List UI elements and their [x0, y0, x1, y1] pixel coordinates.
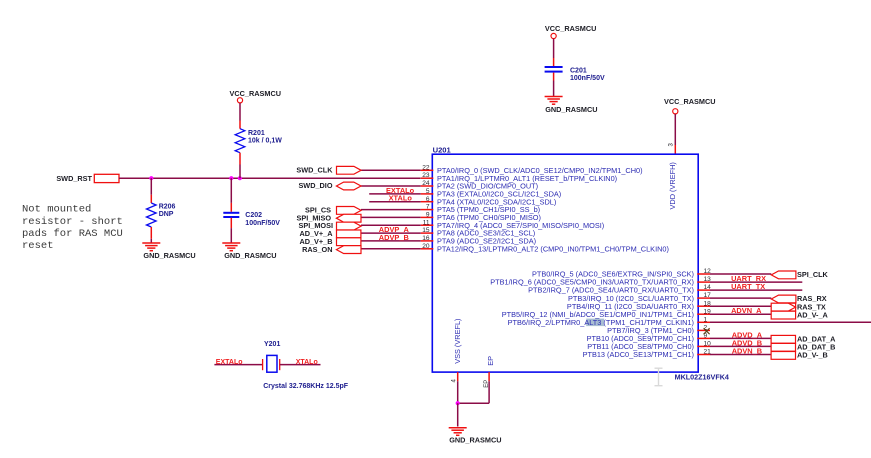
net label UART_RX [731, 274, 766, 283]
pin 4 VSS stub [452, 372, 458, 382]
net label ADVP_A [379, 225, 410, 234]
port flag AD_V+_A [299, 229, 360, 238]
port flag AD_V+_B [299, 237, 360, 246]
port flag AD_DAT_A [771, 335, 836, 344]
svg-text:C202: C202 [245, 212, 262, 219]
pin 1 right [697, 316, 710, 323]
wire pin15 to AD_V+_A flag [361, 232, 421, 234]
port flag AD_V-_A [771, 310, 828, 319]
svg-text:PTA12/IRQ_13/LPTMR0_ALT2 (CMP0: PTA12/IRQ_13/LPTMR0_ALT2 (CMP0_IN0/TPM1_… [437, 244, 669, 253]
pin 7 PTA5 left [421, 204, 540, 215]
net label EXTALo (pin5) [386, 186, 415, 195]
pin 16 PTA9 left [421, 235, 536, 246]
svg-text:15: 15 [422, 227, 430, 234]
svg-text:ADVN_A: ADVN_A [731, 306, 762, 315]
pin 1 PTB6 name with ALT3 highlight [508, 318, 694, 327]
svg-text:9: 9 [426, 212, 430, 219]
pin 12 right [532, 268, 711, 279]
net label ADVP_B [379, 233, 409, 242]
net label ADVN_B [732, 347, 762, 356]
svg-text:100nF/50V: 100nF/50V [570, 75, 605, 82]
svg-text:VCC_RASMCU: VCC_RASMCU [664, 97, 716, 106]
port flag SPI_MOSI [299, 221, 362, 230]
svg-text:Not mounted: Not mounted [22, 204, 91, 216]
wire to bottom ground [457, 403, 459, 426]
svg-text:SPI_CLK: SPI_CLK [797, 270, 829, 279]
port flag SPI_MISO [297, 213, 361, 222]
pin 6 PTA4 left [421, 196, 557, 207]
wire VSS down [457, 381, 459, 403]
wire pin17 to RAS_RX flag [710, 297, 771, 299]
wire pin19 to AD_V-_A flag [710, 313, 771, 315]
power VCC_RASMCU above pin 3 [664, 97, 716, 114]
svg-text:GND_RASMCU: GND_RASMCU [224, 251, 276, 260]
junction VSS/EP [456, 401, 460, 405]
svg-text:PTB6/IRQ_2/LPTMR0_ALT3 (TPM1_C: PTB6/IRQ_2/LPTMR0_ALT3 (TPM1_CH1/TPM_CLK… [508, 318, 694, 327]
text cursor artifact [655, 368, 663, 386]
svg-text:VCC_RASMCU: VCC_RASMCU [230, 89, 282, 98]
wire R201 to net [239, 165, 241, 179]
svg-text:23: 23 [422, 172, 430, 179]
pin EP stub [484, 372, 490, 388]
svg-text:DNP: DNP [159, 211, 174, 218]
resistor R201 10k/0,1W [235, 121, 282, 165]
svg-text:20: 20 [422, 243, 430, 250]
wire C201 to ground [553, 81, 555, 97]
wire pin9 to SPI_MISO flag [361, 216, 421, 218]
pin 19 right [502, 308, 711, 319]
svg-text:C201: C201 [570, 67, 587, 74]
wire pin24 to SWD_DIO flag [361, 185, 421, 187]
svg-text:4: 4 [452, 379, 458, 383]
wire C202 to ground [230, 228, 232, 243]
junction at R206 [149, 176, 153, 180]
wire EP down and over [458, 381, 489, 403]
pin 5 PTA3 left [421, 188, 562, 199]
pin name VDD (VREFH) vertical [668, 162, 677, 209]
port flag RAS_TX [771, 302, 826, 311]
svg-text:R206: R206 [159, 204, 176, 211]
pin 13 right [490, 276, 711, 287]
port flag SPI_CLK [771, 270, 828, 279]
pin 9 PTA6 left [421, 212, 541, 223]
svg-text:7: 7 [426, 204, 430, 211]
svg-text:SWD_DIO: SWD_DIO [298, 181, 332, 190]
pin 20 PTA12 left [421, 243, 669, 254]
svg-text:XTALo: XTALo [296, 359, 318, 366]
port flag SWD_DIO [298, 181, 361, 190]
port flag AD_DAT_B [771, 343, 835, 352]
wire pin7 to SPI_CS flag [361, 209, 421, 211]
pin 23 PTA1 left [421, 172, 617, 183]
svg-text:ADVN_B: ADVN_B [732, 347, 762, 356]
wire VCC to pin 3 [674, 114, 676, 145]
svg-text:UART_TX: UART_TX [731, 282, 765, 291]
svg-text:24: 24 [422, 180, 430, 187]
svg-text:MKL02Z16VFK4: MKL02Z16VFK4 [675, 373, 729, 382]
ground GND_RASMCU under C201 [545, 97, 598, 114]
pin 21 right [583, 349, 712, 360]
svg-text:AD_V-_B: AD_V-_B [797, 351, 828, 360]
junction at C202 [229, 176, 233, 180]
crystal Y201 [263, 341, 349, 390]
junction at R201 [238, 176, 242, 180]
svg-text:6: 6 [426, 196, 430, 203]
pin 18 right [567, 300, 711, 311]
svg-text:U201: U201 [433, 145, 452, 154]
net label EXTALo (crystal) [216, 359, 243, 366]
pin 2 right [607, 325, 710, 336]
wire VCC to R201 [239, 103, 241, 121]
wire VCC to C201 [553, 39, 555, 58]
pin 15 PTA8 left [421, 227, 536, 238]
pin 24 PTA2 left [421, 180, 538, 191]
svg-text:VSS (VREFL): VSS (VREFL) [453, 319, 462, 364]
pin 9 right [587, 333, 710, 344]
net label XTALo (pin6) [389, 194, 413, 203]
net label XTALo (crystal) [296, 359, 318, 366]
ground GND_RASMCU under R206 [142, 243, 195, 260]
port flag SWD_CLK [296, 166, 361, 175]
wire pin12 to SPI_CLK flag [710, 273, 771, 275]
wire pin1 long net [710, 321, 871, 323]
pin 17 right [568, 292, 711, 303]
svg-text:PTB13 (ADC0_SE13/TPM1_CH1): PTB13 (ADC0_SE13/TPM1_CH1) [583, 350, 694, 359]
port flag AD_V-_B [771, 351, 828, 360]
wire UART_RX pin13 [710, 281, 802, 283]
svg-text:EXTALo: EXTALo [216, 359, 243, 366]
svg-text:VDD (VREFH): VDD (VREFH) [668, 162, 677, 209]
wire junction to R206 [150, 178, 152, 195]
svg-text:100nF/50V: 100nF/50V [245, 220, 280, 227]
svg-text:Crystal 32.768KHz 12.5pF: Crystal 32.768KHz 12.5pF [263, 383, 349, 390]
wire crystal to XTALo [280, 364, 321, 366]
power VCC_RASMCU above C201 [545, 24, 597, 38]
wire pin21 to AD_V-_B flag [710, 354, 771, 356]
net label ADVN_A [731, 306, 762, 315]
svg-text:pads for RAS MCU: pads for RAS MCU [22, 228, 123, 240]
svg-text:GND_RASMCU: GND_RASMCU [545, 105, 597, 114]
wire EXTALo to crystal [214, 364, 262, 366]
wire junction to C202 [230, 178, 232, 203]
IC U201 MKL02Z16VFK4 body [432, 145, 729, 381]
net label ADVD_A [732, 330, 763, 339]
svg-text:GND_RASMCU: GND_RASMCU [143, 251, 195, 260]
power VCC_RASMCU above R201 [230, 89, 282, 103]
resistor R206 DNP [147, 195, 176, 239]
wire pin9 to AD_DAT_A flag [710, 337, 771, 339]
svg-text:5: 5 [426, 188, 430, 195]
note text: not mounted resistor [22, 204, 123, 253]
capacitor C201 100nF/50V [545, 58, 605, 82]
wire UART_TX pin14 [710, 289, 802, 291]
pin 22 PTA0 left [421, 164, 643, 175]
svg-text:Y201: Y201 [264, 341, 280, 348]
pin 3 VDD stub [669, 143, 676, 155]
svg-text:10k / 0,1W: 10k / 0,1W [248, 137, 282, 144]
port flag RAS_RX [771, 294, 826, 303]
wire net SWD_RST horizontal [119, 177, 421, 179]
no-connect X on pin 2 [704, 328, 710, 334]
svg-text:ADVP_B: ADVP_B [379, 233, 409, 242]
ground GND_RASMCU bottom [449, 428, 502, 445]
wire pin11 to SPI_MOSI flag [361, 224, 421, 226]
wire R206 to ground [150, 239, 152, 243]
pin 14 right [528, 284, 711, 295]
pin 10 right [587, 341, 711, 352]
svg-text:resistor - short: resistor - short [22, 216, 123, 228]
svg-text:EP: EP [486, 356, 495, 366]
wire pin18 to RAS_TX flag [710, 305, 771, 307]
net label ADVD_B [732, 338, 762, 347]
wire pin16 to AD_V+_B flag [361, 240, 421, 242]
wire XTAL0 stub pin6 [369, 201, 421, 203]
pin name VSS (VREFL) vertical [453, 319, 462, 364]
svg-text:SWD_RST: SWD_RST [56, 174, 92, 183]
ground GND_RASMCU under C202 [222, 243, 276, 260]
pin 11 PTA7 left [421, 219, 605, 230]
svg-text:AD_V-_A: AD_V-_A [797, 310, 829, 319]
svg-text:R201: R201 [248, 130, 265, 137]
svg-text:SWD_CLK: SWD_CLK [296, 166, 333, 175]
svg-text:XTALo: XTALo [389, 194, 413, 203]
svg-text:1: 1 [704, 316, 708, 323]
wire EXTAL0 stub pin5 [369, 193, 421, 195]
svg-text:RAS_ON: RAS_ON [302, 245, 332, 254]
svg-text:reset: reset [22, 240, 54, 252]
wire pin22 to SWD_CLK flag [361, 169, 421, 171]
svg-text:11: 11 [423, 219, 430, 226]
capacitor C202 100nF/50V [223, 203, 280, 228]
svg-text:GND_RASMCU: GND_RASMCU [449, 436, 501, 445]
port flag SPI_CS [305, 206, 361, 215]
pin name EP vertical [486, 356, 495, 366]
svg-text:3: 3 [669, 143, 675, 147]
svg-text:22: 22 [422, 164, 430, 171]
wire pin20 to RAS_ON flag [361, 248, 421, 250]
wire pin10 to AD_DAT_B flag [710, 345, 771, 347]
port SWD_RST [56, 174, 119, 183]
port flag RAS_ON [302, 245, 361, 254]
svg-text:VCC_RASMCU: VCC_RASMCU [545, 24, 597, 33]
svg-text:16: 16 [422, 235, 430, 242]
net label UART_TX [731, 282, 765, 291]
